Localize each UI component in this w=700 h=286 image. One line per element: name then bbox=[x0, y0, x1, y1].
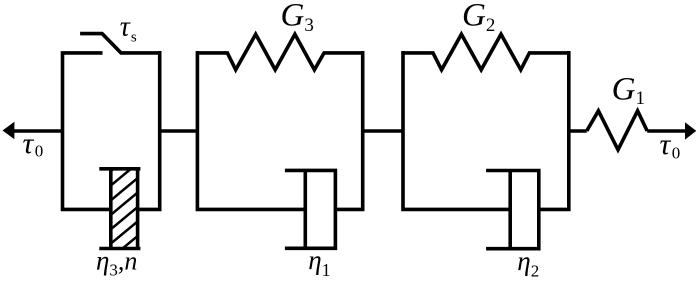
dashpot η2 cylinder (open left C-shape) bbox=[486, 171, 539, 249]
wire: block2 right vertical bbox=[335, 51, 362, 209]
svg-text:η2: η2 bbox=[517, 246, 539, 281]
wire: left applied-stress lead into node at left vertical bbox=[11, 129, 63, 133]
wire: block1 left vertical with top fixed switch contact and bottom-left run bbox=[63, 53, 112, 210]
damper N1 hatch stripes bbox=[100, 139, 150, 268]
wire: block1 right vertical bbox=[138, 51, 160, 209]
svg-text:τ0: τ0 bbox=[660, 128, 681, 162]
wire: node between block2 and block3 bbox=[363, 129, 403, 133]
wire: block2 left vertical bbox=[197, 51, 305, 209]
svg-text:η3,n: η3,n bbox=[96, 245, 137, 279]
spring G2 zigzag on block3 top bbox=[403, 34, 569, 70]
svg-text:G3: G3 bbox=[281, 0, 314, 36]
damper N1 hatched cylinder top cap bbox=[99, 167, 140, 171]
wire: node between block1 and block2 bbox=[160, 129, 198, 133]
svg-text:G1: G1 bbox=[612, 71, 645, 109]
dashpot η1 cylinder (open left C-shape) bbox=[285, 170, 336, 248]
damper N1 hatched cylinder bottom cap bbox=[99, 247, 140, 251]
wire: node block3 to spring G1 bbox=[569, 129, 587, 133]
damper N1 hatched body right wall bbox=[136, 169, 140, 249]
wire: block3 right vertical bbox=[539, 51, 569, 209]
dashpot η2 piston plate bbox=[508, 171, 512, 249]
wire: right applied-stress lead bbox=[647, 129, 688, 133]
spring G1 zigzag in series bbox=[587, 111, 648, 150]
svg-text:τs: τs bbox=[120, 12, 137, 46]
arrowhead: left stress arrow bbox=[3, 122, 15, 139]
switch τs blade (open switch) joining block1 top-right wire bbox=[80, 34, 160, 53]
arrowhead: right stress arrow bbox=[685, 122, 696, 139]
damper N1 hatched body left wall bbox=[109, 169, 113, 249]
spring G3 zigzag on block2 top bbox=[197, 34, 362, 70]
wire: block3 left vertical bbox=[403, 51, 510, 209]
svg-text:G2: G2 bbox=[462, 0, 495, 36]
dashpot η1 piston plate bbox=[303, 170, 307, 248]
